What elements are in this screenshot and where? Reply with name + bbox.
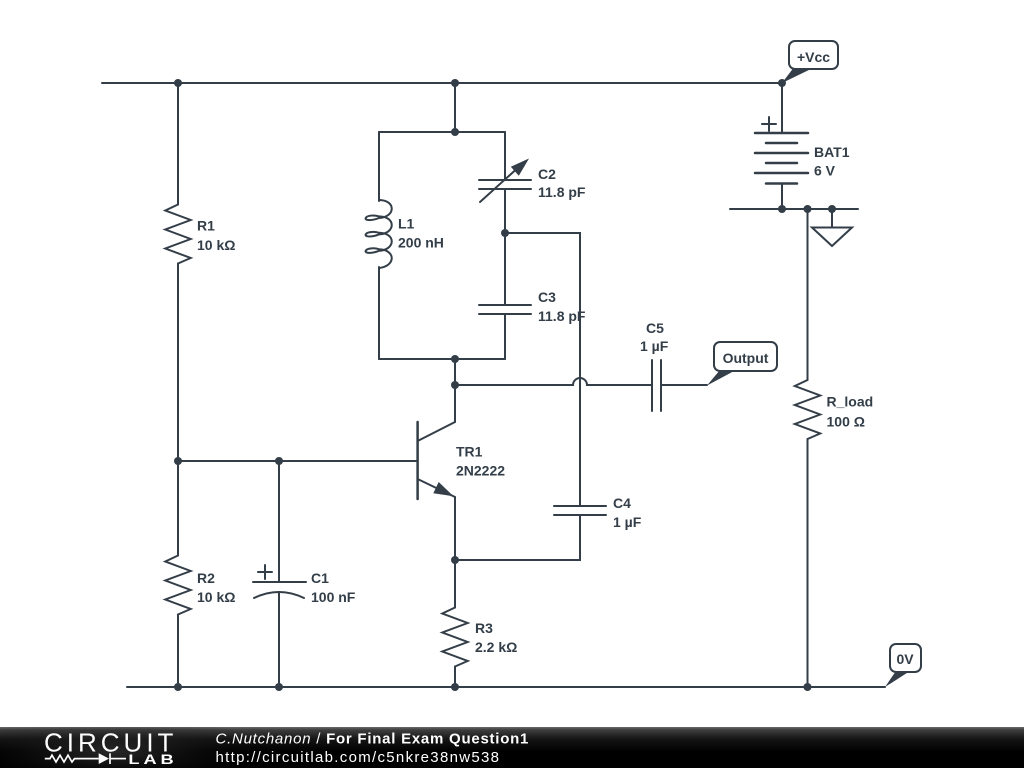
node base/R divider <box>174 457 182 465</box>
ground <box>831 209 833 227</box>
svg-text:1 µF: 1 µF <box>613 514 642 530</box>
svg-text:C4: C4 <box>613 495 631 511</box>
svg-text:R3: R3 <box>475 620 493 636</box>
svg-text:10 kΩ: 10 kΩ <box>197 589 235 605</box>
node C2/C3 junction <box>501 229 509 237</box>
flag 0V <box>885 671 910 687</box>
node emitter / C4 <box>451 556 459 564</box>
node gnd symbol <box>828 205 836 213</box>
wire collector rail with hop <box>455 378 652 385</box>
resistor R1 <box>165 205 190 264</box>
transistor TR1 <box>416 422 419 499</box>
wire battery to ground rail <box>781 184 783 210</box>
svg-text:R_load: R_load <box>827 394 874 410</box>
flag +Vcc <box>782 69 812 84</box>
capacitor C3 <box>479 304 531 306</box>
wire L1 top lead <box>378 132 380 201</box>
svg-text:100 nF: 100 nF <box>311 589 356 605</box>
svg-text:10 kΩ: 10 kΩ <box>197 237 235 253</box>
svg-text:0V: 0V <box>896 651 914 667</box>
svg-text:C3: C3 <box>538 289 556 305</box>
wire R2 branch upper <box>177 461 179 556</box>
svg-text:11.8 pF: 11.8 pF <box>538 184 586 200</box>
svg-text:+Vcc: +Vcc <box>797 49 830 65</box>
svg-text:2N2222: 2N2222 <box>456 463 505 479</box>
svg-text:TR1: TR1 <box>456 444 483 460</box>
node battery/ground <box>778 205 786 213</box>
wire ground rail <box>730 208 858 210</box>
wire L1 bottom lead <box>378 267 380 359</box>
node collector <box>451 381 459 389</box>
svg-text:6 V: 6 V <box>814 163 836 179</box>
node R2/bottom <box>174 683 182 691</box>
wire C4 bottom to emitter <box>455 515 580 560</box>
svg-text:C1: C1 <box>311 570 329 586</box>
svg-text:1 µF: 1 µF <box>640 338 669 354</box>
node R_load/bottom <box>804 683 812 691</box>
battery BAT1 <box>762 117 776 131</box>
wire R1 branch upper <box>177 83 179 205</box>
svg-text:LAB: LAB <box>128 752 177 768</box>
svg-text:Output: Output <box>723 350 769 366</box>
wire C1 to bottom rail <box>278 592 280 687</box>
wire R3 to bottom rail <box>454 667 456 688</box>
wire battery drop <box>781 83 783 133</box>
wire C3 bottom lead <box>504 314 506 359</box>
wire junction to feedback column <box>505 233 580 506</box>
svg-text:2.2 kΩ: 2.2 kΩ <box>475 639 517 655</box>
logo CIRCUIT LAB <box>0 0 1 1</box>
svg-text:BAT1: BAT1 <box>814 144 850 160</box>
wire tank bottom <box>379 358 505 360</box>
node C1/bottom <box>275 683 283 691</box>
wire R1 to base rail <box>177 264 179 462</box>
svg-text:C2: C2 <box>538 166 556 182</box>
wire emitter column <box>454 497 456 608</box>
node top rail / battery junction <box>778 79 786 87</box>
node tank top <box>451 128 459 136</box>
resistor R3 <box>442 608 467 667</box>
node top rail / tank junction <box>451 79 459 87</box>
wire tank top drop <box>454 83 456 132</box>
wire R_load upper <box>807 209 809 380</box>
svg-text:R2: R2 <box>197 570 215 586</box>
wire R2 to bottom rail <box>177 615 179 688</box>
node R_load/ground <box>804 205 812 213</box>
wire C1 branch upper <box>278 461 280 582</box>
svg-text:http://circuitlab.com/c5nkre38: http://circuitlab.com/c5nkre38nw538 <box>216 749 501 766</box>
resistor R2 <box>165 556 190 615</box>
node base/C1 <box>275 457 283 465</box>
wire C5 to output <box>661 384 707 386</box>
logo circuit glyph <box>45 753 126 764</box>
svg-text:200 nH: 200 nH <box>398 235 444 251</box>
wire tank top <box>379 131 505 133</box>
node tank bottom <box>451 355 459 363</box>
svg-text:C.Nutchanon / For Final Exam Q: C.Nutchanon / For Final Exam Question1 <box>216 731 530 748</box>
wire C2 top lead <box>504 132 506 180</box>
capacitor C1 (polarized) <box>253 581 306 583</box>
wire R_load to bottom rail <box>807 439 809 687</box>
wire C2 to C3 <box>504 189 506 305</box>
node top rail / R1 junction <box>174 79 182 87</box>
svg-text:100 Ω: 100 Ω <box>827 414 865 430</box>
capacitor C5 <box>651 360 653 411</box>
svg-text:C5: C5 <box>646 320 664 336</box>
wire tank bottom to collector <box>454 359 456 422</box>
svg-text:L1: L1 <box>398 216 415 232</box>
node R3/bottom <box>451 683 459 691</box>
wire base rail <box>178 460 283 462</box>
wire bottom rail <box>127 686 885 688</box>
svg-text:R1: R1 <box>197 218 215 234</box>
resistor R_load <box>795 380 820 439</box>
capacitor C2 (variable) <box>479 179 531 181</box>
inductor L1 <box>366 200 392 268</box>
capacitor C4 <box>554 505 606 507</box>
wire top rail <box>102 82 782 84</box>
flag Output <box>707 370 736 386</box>
svg-text:11.8 pF: 11.8 pF <box>538 308 586 324</box>
